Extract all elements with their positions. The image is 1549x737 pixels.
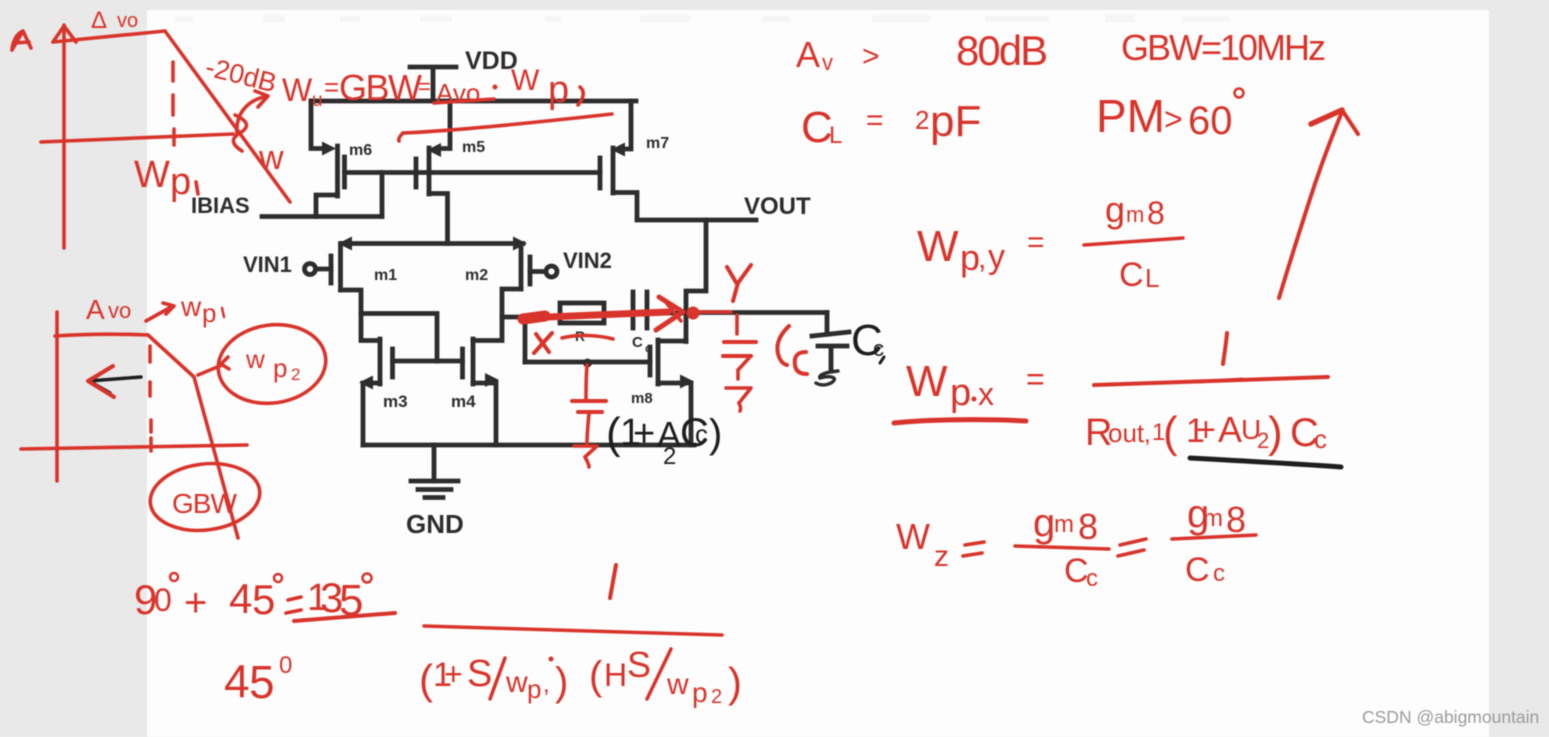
svg-text:g: g: [1105, 189, 1125, 230]
svg-text:2: 2: [291, 365, 300, 384]
svg-text:S: S: [627, 644, 651, 685]
svg-text:y: y: [988, 238, 1005, 276]
svg-text:L: L: [1145, 263, 1159, 293]
svg-text:p: p: [202, 298, 216, 328]
svg-text:c: c: [1086, 565, 1098, 592]
svg-text:c: c: [1314, 424, 1327, 454]
svg-text:=: =: [1027, 226, 1045, 259]
svg-text:GND: GND: [406, 509, 464, 539]
svg-text:0: 0: [279, 652, 292, 679]
svg-text:W: W: [917, 222, 959, 271]
svg-text:A: A: [1218, 409, 1242, 450]
svg-text:vo: vo: [117, 10, 138, 32]
svg-text:m: m: [1054, 511, 1074, 538]
svg-text:5: 5: [339, 576, 363, 625]
svg-text:p: p: [527, 674, 541, 704]
svg-text:,: ,: [1144, 421, 1151, 448]
svg-text:(: (: [589, 654, 603, 698]
svg-text:u: u: [312, 90, 323, 111]
svg-text:IBIAS: IBIAS: [191, 193, 250, 218]
svg-text:w: w: [505, 666, 528, 699]
svg-text:80dB: 80dB: [956, 27, 1046, 74]
svg-text:m2: m2: [465, 267, 488, 284]
svg-text:5: 5: [249, 656, 275, 708]
svg-text:g: g: [1033, 501, 1055, 545]
svg-text:W: W: [896, 516, 930, 557]
svg-text:w: w: [245, 344, 265, 374]
svg-text:C: C: [1119, 256, 1144, 294]
svg-text:m6: m6: [349, 142, 372, 159]
svg-text:S: S: [467, 653, 492, 695]
svg-text:): ): [709, 412, 722, 456]
svg-text:2: 2: [711, 686, 722, 708]
svg-text:A: A: [796, 34, 820, 75]
svg-text:2: 2: [663, 443, 676, 470]
svg-text:W: W: [282, 72, 313, 108]
svg-text:VDD: VDD: [465, 47, 518, 75]
svg-text:(: (: [1163, 408, 1178, 457]
svg-text:m7: m7: [646, 135, 669, 152]
svg-text:p: p: [692, 677, 708, 708]
svg-text:>: >: [1164, 101, 1183, 137]
svg-text:0: 0: [154, 582, 172, 618]
svg-text:+: +: [1196, 411, 1216, 449]
svg-text:8: 8: [1147, 195, 1165, 231]
svg-text:(: (: [606, 409, 621, 458]
svg-text:c: c: [695, 419, 708, 449]
svg-text:m: m: [1203, 505, 1223, 532]
svg-text:p: p: [273, 353, 287, 383]
svg-text:out: out: [1108, 418, 1145, 448]
svg-text:4: 4: [224, 655, 250, 707]
svg-text:p: p: [950, 372, 971, 414]
svg-text:L: L: [829, 122, 842, 149]
svg-text:60: 60: [1188, 99, 1233, 143]
svg-text:>: >: [862, 40, 880, 73]
svg-text:c: c: [645, 343, 651, 355]
svg-text:): ): [555, 660, 568, 704]
svg-text:p: p: [548, 69, 569, 111]
svg-text:CSDN @abigmountain: CSDN @abigmountain: [1362, 707, 1539, 727]
svg-text:+: +: [633, 413, 655, 455]
svg-text:=: =: [866, 104, 884, 137]
svg-text:vo: vo: [108, 298, 131, 323]
svg-text:C: C: [801, 103, 833, 152]
svg-text:8: 8: [1226, 499, 1246, 540]
svg-text:C: C: [1185, 551, 1210, 589]
svg-text:m1: m1: [374, 267, 397, 284]
svg-text:p: p: [170, 161, 191, 203]
svg-text:C: C: [1064, 552, 1089, 590]
svg-text:VOUT: VOUT: [744, 193, 811, 220]
svg-text:Avo: Avo: [436, 78, 480, 108]
svg-text:GBW: GBW: [339, 67, 422, 108]
svg-text:2: 2: [915, 105, 929, 135]
svg-text:c: c: [1213, 560, 1225, 587]
svg-text:W: W: [134, 154, 170, 196]
svg-text:GBW=10MHz: GBW=10MHz: [1121, 27, 1325, 68]
svg-text:4: 4: [229, 575, 252, 622]
svg-text:8: 8: [1078, 506, 1098, 547]
svg-text:W: W: [906, 357, 948, 406]
svg-text:x: x: [978, 376, 994, 412]
svg-text:H: H: [604, 657, 627, 693]
svg-text:m8: m8: [631, 390, 653, 407]
svg-text:=: =: [418, 74, 431, 99]
svg-text:=: =: [1026, 361, 1045, 397]
svg-text:VIN1: VIN1: [243, 252, 292, 277]
svg-text:m5: m5: [462, 139, 485, 156]
svg-text:w: w: [180, 291, 202, 322]
svg-text:+: +: [444, 656, 463, 692]
svg-text:=: =: [324, 72, 339, 102]
svg-text:z: z: [934, 540, 949, 573]
svg-text:m4: m4: [451, 392, 476, 411]
svg-text:m: m: [1126, 202, 1144, 227]
svg-text:Δ: Δ: [91, 7, 107, 34]
svg-text:m3: m3: [383, 392, 408, 411]
svg-text:GBW: GBW: [172, 488, 237, 519]
svg-text:5: 5: [252, 576, 275, 623]
svg-text:w: w: [258, 139, 284, 177]
svg-text:W: W: [511, 64, 540, 97]
svg-text:,: ,: [978, 242, 986, 275]
svg-text:pF: pF: [930, 97, 981, 146]
svg-text:v: v: [822, 50, 833, 75]
svg-text:): ): [728, 659, 742, 706]
svg-text:w: w: [666, 668, 689, 701]
svg-text:,: ,: [543, 671, 550, 698]
svg-text:+: +: [184, 581, 207, 625]
svg-text:): ): [1268, 408, 1283, 457]
svg-text:(: (: [419, 656, 433, 703]
svg-text:C: C: [632, 334, 643, 351]
svg-text:A: A: [86, 294, 105, 325]
svg-text:PM: PM: [1096, 90, 1165, 142]
svg-text:VIN2: VIN2: [563, 248, 612, 273]
